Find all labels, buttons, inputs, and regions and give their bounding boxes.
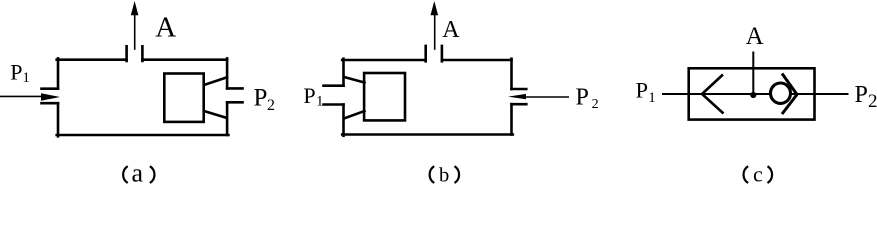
wire bottom wall (a) <box>57 134 229 137</box>
wire left wall lower segment (a) <box>57 103 60 136</box>
wire right wall lower segment (a) <box>226 102 229 135</box>
label P2 (c) <box>855 82 877 112</box>
wire top wall left segment (b) <box>342 59 426 62</box>
wire P1 to P2 line (c) <box>662 93 849 95</box>
wire right wall upper segment (a) <box>226 58 229 88</box>
svg-text:P: P <box>636 77 649 102</box>
svg-text:A: A <box>746 23 764 50</box>
wire left wall upper segment (b) <box>342 59 345 86</box>
port P1 top stub (a) <box>42 87 59 90</box>
right seat chevron (c) <box>782 74 797 115</box>
svg-text:A: A <box>442 17 460 43</box>
port P2 top stub (b) <box>512 88 527 91</box>
wire top wall right segment (b) <box>442 59 512 62</box>
flow line P1 (a) <box>0 95 45 97</box>
poppet square (a) <box>164 74 203 122</box>
wire left wall lower segment (b) <box>342 105 345 136</box>
port P1 bottom stub (b) <box>324 103 344 106</box>
port A left stub (a) <box>125 46 128 61</box>
wire bottom wall (b) <box>342 133 513 136</box>
port P2 bottom stub (b) <box>512 103 527 106</box>
port A left stub (b) <box>424 46 427 61</box>
flow line A (a) <box>134 12 136 50</box>
svg-text:P: P <box>10 60 22 85</box>
wire top wall right segment (a) <box>142 58 227 61</box>
port A right stub (b) <box>441 46 444 61</box>
wire right wall lower segment (b) <box>510 104 513 134</box>
svg-text:c: c <box>753 162 763 185</box>
svg-text:P: P <box>855 82 868 108</box>
port P1 top stub (b) <box>324 84 344 87</box>
seat slant lower (a) <box>204 111 226 118</box>
label P1 (a) <box>10 60 30 87</box>
svg-text:2: 2 <box>868 91 877 112</box>
seat slant upper (b) <box>344 77 365 83</box>
flow arrowhead P1 (a) <box>41 93 60 100</box>
svg-text:P: P <box>254 85 268 112</box>
svg-text:a: a <box>132 158 144 184</box>
flow line P2 (b) <box>524 96 569 98</box>
seat slant lower (b) <box>344 111 365 119</box>
ball circle (c) <box>771 83 791 103</box>
flow line A (b) <box>434 12 436 50</box>
svg-text:b: b <box>439 164 449 184</box>
flow arrowhead A (b) <box>431 1 439 15</box>
flow arrowhead P2 (b) <box>508 94 526 99</box>
caption (b) <box>430 164 459 186</box>
label P1 (c) <box>636 77 656 106</box>
wire top wall left segment (a) <box>57 58 127 61</box>
wire A vertical line (c) <box>752 52 754 95</box>
port P2 top stub (a) <box>227 87 242 90</box>
svg-text:1: 1 <box>648 90 656 106</box>
svg-text:P: P <box>303 83 315 108</box>
wire right wall upper segment (b) <box>510 59 513 89</box>
node junction dot (c) <box>750 92 756 98</box>
seat slant upper (a) <box>204 77 227 85</box>
svg-text:P: P <box>576 84 589 110</box>
svg-text:2: 2 <box>267 97 275 114</box>
svg-text:1: 1 <box>22 70 30 86</box>
flow arrowhead A (a) <box>131 1 139 15</box>
port P2 bottom stub (a) <box>227 101 242 104</box>
label P1 (b) <box>303 83 323 110</box>
label P2 (b) <box>576 84 599 112</box>
left seat chevron (c) <box>702 75 724 114</box>
caption (a) <box>123 158 154 187</box>
caption (c) <box>744 162 773 187</box>
svg-text:2: 2 <box>592 97 599 112</box>
svg-text:A: A <box>155 11 176 43</box>
poppet square (b) <box>364 73 405 120</box>
port A right stub (a) <box>141 46 144 61</box>
svg-text:1: 1 <box>316 94 324 110</box>
wire left wall upper segment (a) <box>57 58 60 88</box>
label P2 (a) <box>254 85 276 114</box>
port P1 bottom stub (a) <box>42 102 59 105</box>
symbol box (c) <box>689 68 815 119</box>
